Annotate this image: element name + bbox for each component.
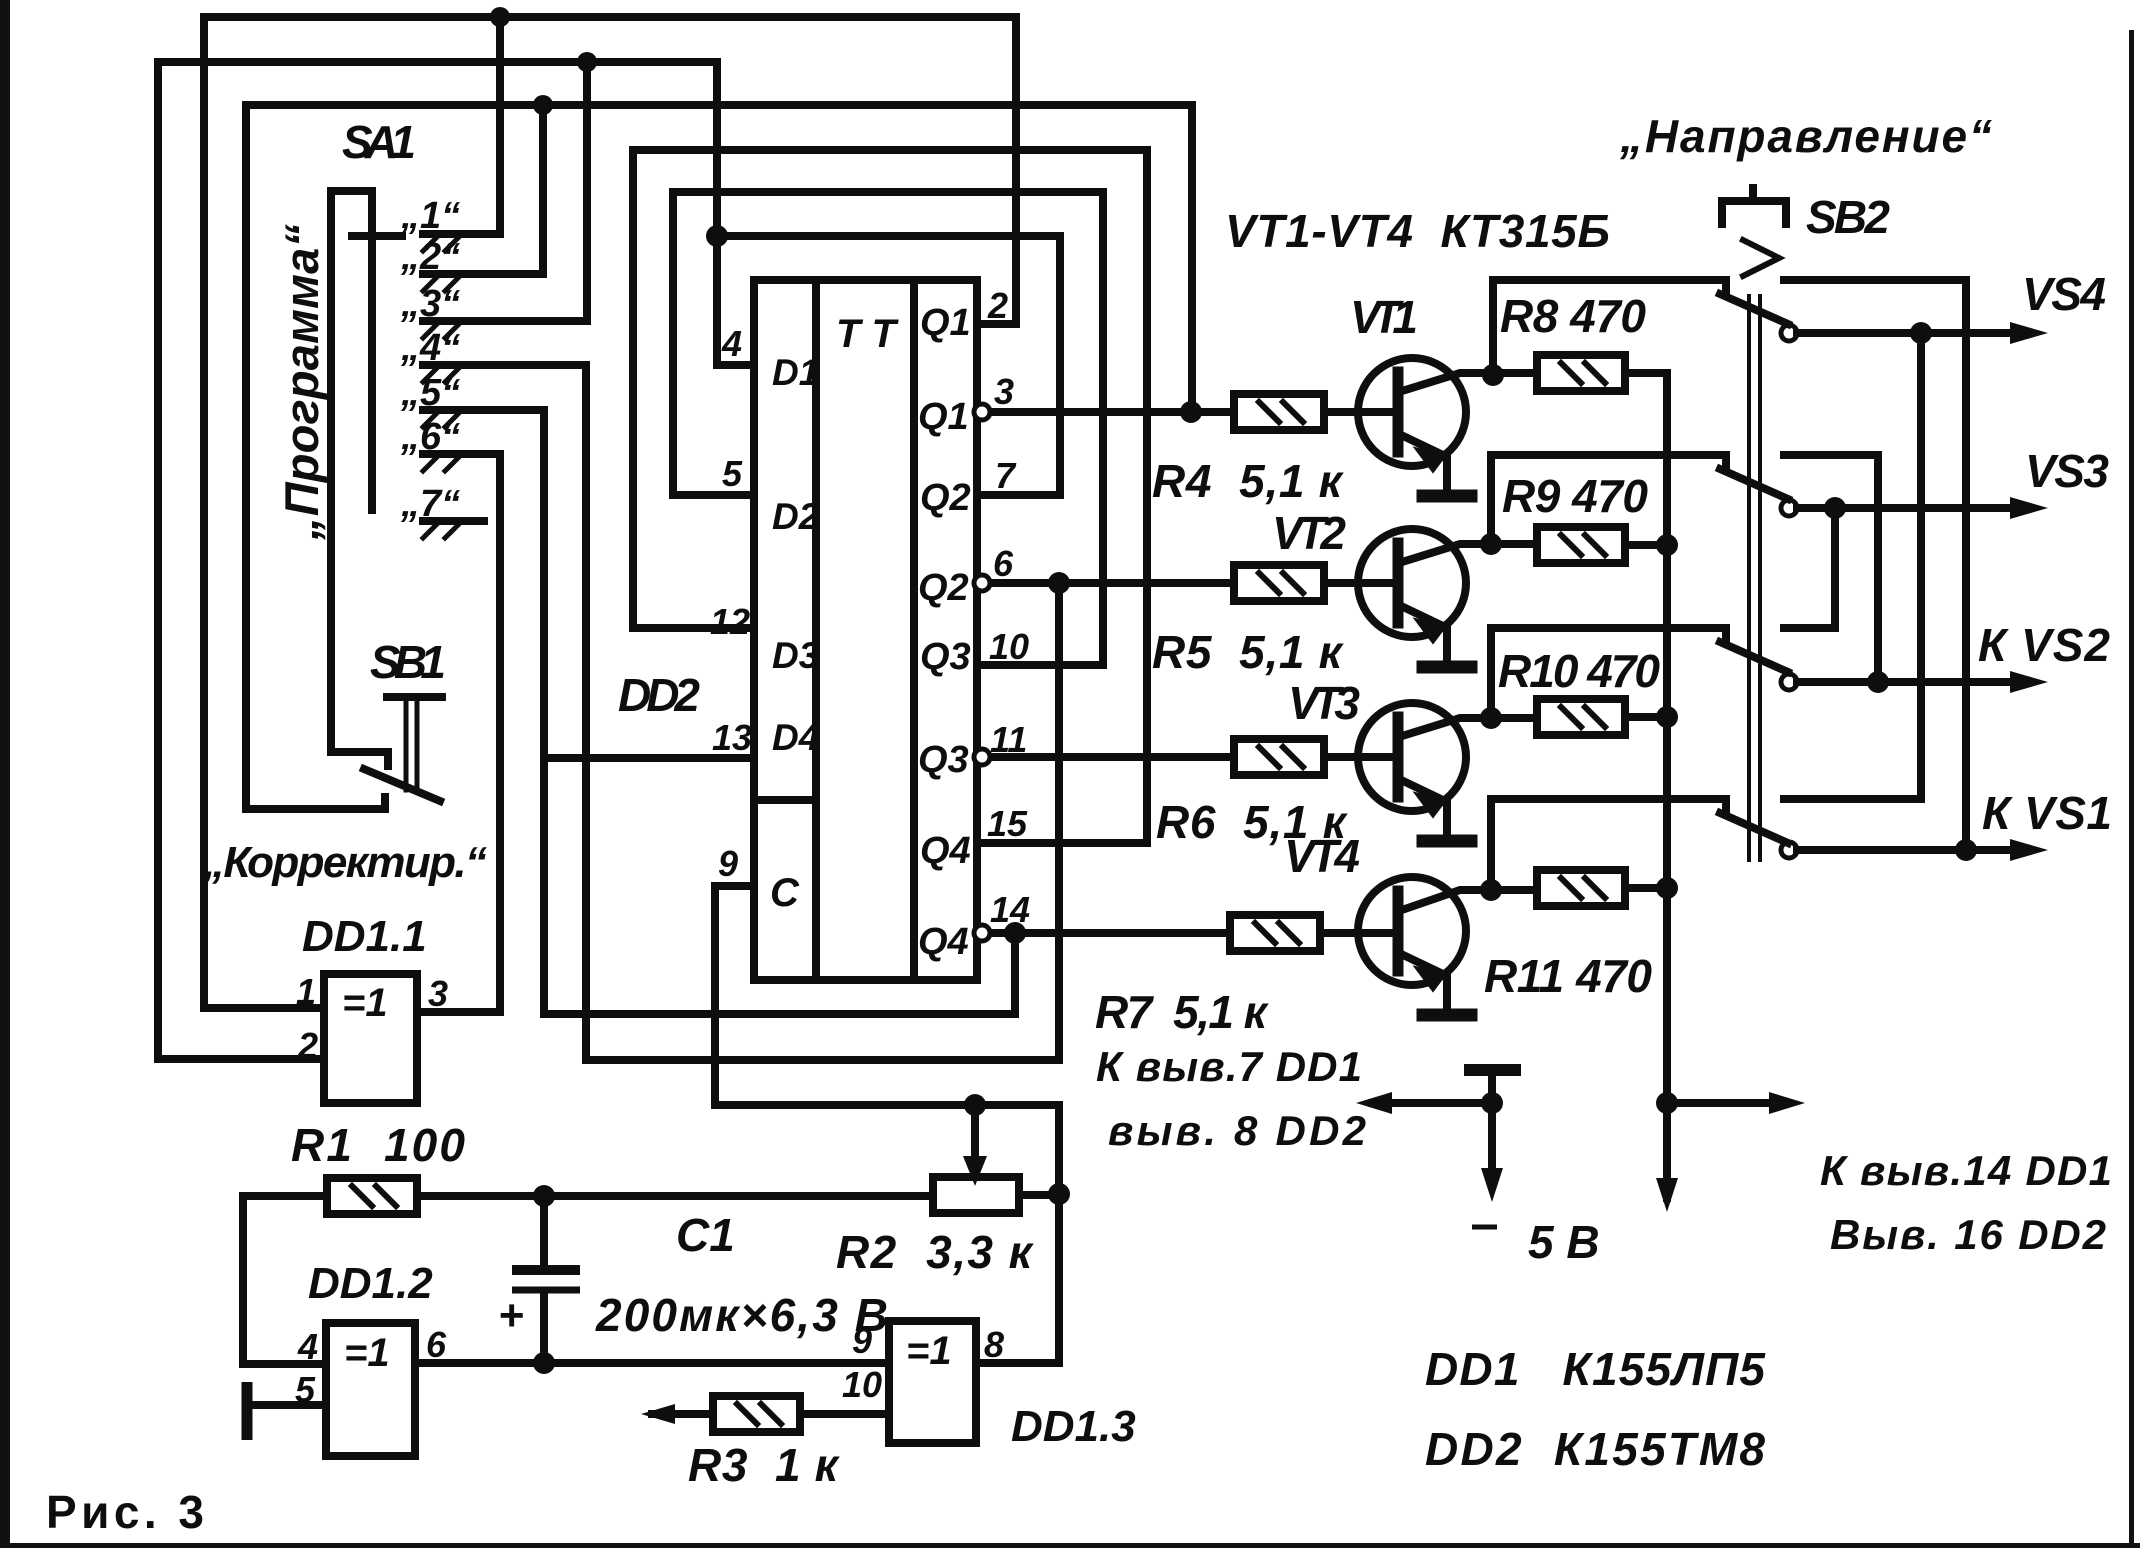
wire VT1 collector to R8	[1399, 373, 1537, 392]
power -5V symbol bar	[1470, 1064, 1515, 1076]
transistor VT1 base bar	[1393, 372, 1404, 452]
DD2 output circle pin11	[974, 749, 990, 765]
wire VT3 feed to SB2 section 3	[1491, 628, 1726, 718]
junction dot D1 node	[706, 225, 728, 247]
svg-text:SB2: SB2	[1806, 191, 1890, 243]
junction dot rail A x500	[490, 7, 510, 27]
switch SB2 blade 3	[1720, 642, 1788, 672]
arrow power down left	[1481, 1168, 1503, 1202]
junction dot R2 right	[1048, 1183, 1070, 1205]
switch SB2 blade 4	[1720, 813, 1788, 843]
svg-text:К выв.14 DD1: К выв.14 DD1	[1820, 1147, 2112, 1194]
wire SA1 pos3 stub	[423, 75, 587, 321]
arrow R3 output left	[641, 1404, 675, 1424]
svg-text:К VS2: К VS2	[1978, 619, 2110, 671]
wire SA1 pos5 to D4 and Q4-inv node	[423, 410, 1015, 1014]
svg-text:„4“: „4“	[400, 327, 460, 369]
arrow R2 wiper head	[963, 1156, 987, 1186]
switch SB1 blade	[364, 769, 440, 801]
wire power to pin7 DD1 note	[1372, 1099, 1492, 1107]
svg-text:DD1 К155ЛП5: DD1 К155ЛП5	[1425, 1343, 1766, 1395]
label minus sign for 5V	[1472, 1225, 1497, 1230]
wire SB2 crossover stub1 to K VS1	[1784, 280, 1966, 850]
svg-text:D2: D2	[772, 496, 820, 537]
svg-text:VT2: VT2	[1272, 507, 1346, 559]
arrow bus right to pin14 note	[1769, 1092, 1805, 1114]
switch SB1 actuator stem	[406, 701, 417, 790]
transistor VT1	[1358, 358, 1466, 466]
wire D3-Q4 link DD2 pin12 to pin15	[633, 150, 1147, 843]
svg-text:6: 6	[426, 1324, 447, 1365]
resistor R11	[1537, 870, 1625, 906]
svg-text:VT3: VT3	[1288, 677, 1360, 729]
wire SA1 pos1 stub	[423, 30, 500, 234]
svg-text:R11 470: R11 470	[1484, 950, 1652, 1002]
junction dot rail C x543	[533, 95, 553, 115]
wire VT4 base from DD2 pin14	[984, 929, 1394, 937]
junction dot bus R11	[1656, 877, 1678, 899]
svg-text:9: 9	[852, 1320, 872, 1361]
junction dot R1 right C1	[533, 1185, 555, 1207]
wire VT1 feed to SB2 section 1	[1493, 280, 1726, 375]
DD2 output circle pin6	[974, 575, 990, 591]
svg-text:R8 470: R8 470	[1500, 290, 1646, 342]
SB2 output line VS3	[1797, 504, 2012, 512]
junction dot VS3 crossover	[1824, 497, 1846, 519]
wire SA1 pos4 to Q2-inv node	[423, 365, 1059, 1060]
wire bus to pin14 DD1 note	[1667, 1099, 1788, 1107]
resistor R3	[713, 1396, 800, 1432]
switch SB2 actuator arrow	[1743, 240, 1779, 276]
svg-text:5: 5	[722, 453, 743, 494]
potentiometer R2 body	[933, 1177, 1019, 1213]
svg-text:10: 10	[842, 1364, 882, 1405]
svg-text:R1 100: R1 100	[291, 1119, 465, 1171]
svg-text:D1: D1	[772, 352, 819, 393]
svg-text:R2 3,3 к: R2 3,3 к	[836, 1226, 1035, 1278]
wire DD2 pin13 D4 branch	[544, 754, 756, 762]
junction dot Q2-inv line	[1048, 572, 1070, 594]
wire rail A net: SA1 pos1 / DD1.1 pin1 / DD2 pin2 Q1	[204, 17, 1016, 1008]
svg-text:R10 470: R10 470	[1498, 645, 1660, 697]
svg-text:„Корректир.“: „Корректир.“	[202, 838, 487, 887]
svg-text:12: 12	[710, 601, 750, 642]
svg-text:9: 9	[718, 843, 738, 884]
svg-text:Q4: Q4	[918, 921, 969, 963]
junction dot VS4 crossover	[1910, 322, 1932, 344]
IC DD2 inner divider left	[812, 280, 820, 980]
wire minus bus R8-R11 to supply	[1625, 373, 1667, 1198]
svg-text:R6 5,1 к: R6 5,1 к	[1156, 796, 1349, 848]
wire DD1.2 pin6 to DD1.3 pin9	[415, 1359, 889, 1367]
SA1 contact ticks row6	[423, 457, 459, 471]
svg-text:R3 1 к: R3 1 к	[688, 1439, 841, 1491]
wire rail C net: SB1 lower contact / SA1 pos2 / R4 line	[246, 105, 1192, 809]
wire VT4 feed to SB2 section 4	[1491, 799, 1726, 890]
svg-text:=1: =1	[906, 1329, 952, 1373]
wire D2-Q3 link DD2 pin5 to pin10	[673, 192, 1103, 665]
wire VT1 emitter	[1399, 434, 1447, 490]
resistor R4	[1234, 394, 1324, 430]
svg-text:„3“: „3“	[400, 283, 460, 325]
wire SA1 pos6 to DD1.1 pin3	[417, 454, 500, 1012]
svg-text:Выв. 16 DD2: Выв. 16 DD2	[1830, 1211, 2106, 1258]
junction dot C1 bottom on pin9 line	[533, 1352, 555, 1374]
svg-text:VS3: VS3	[2025, 445, 2109, 497]
svg-text:7: 7	[995, 455, 1017, 496]
arrow output K VS2	[2010, 671, 2048, 693]
switch SB2 contact circle K VS1	[1781, 842, 1797, 858]
svg-text:5 В: 5 В	[1528, 1216, 1600, 1268]
VT4 emitter arrowhead	[1415, 967, 1445, 991]
gate DD1.2 body	[326, 1323, 415, 1456]
junction dot bus R9	[1656, 534, 1678, 556]
wire R2 wiper tap	[971, 1105, 979, 1168]
svg-text:3: 3	[428, 973, 448, 1014]
IC DD2 inner divider right	[910, 280, 918, 980]
svg-text:14: 14	[990, 889, 1030, 930]
svg-text:VT1: VT1	[1350, 291, 1418, 343]
switch SA1 rotor bar	[368, 194, 376, 510]
svg-text:6: 6	[993, 543, 1014, 584]
svg-text:DD1.2: DD1.2	[308, 1259, 433, 1308]
wire VT2 base from DD2 pin6	[984, 579, 1394, 587]
svg-text:Т Т: Т Т	[836, 312, 900, 356]
wire VT2 emitter	[1399, 605, 1447, 661]
wire VT3 collector to R10	[1399, 718, 1537, 737]
switch SB2 contact circle K VS2	[1781, 674, 1797, 690]
VT2 emitter arrowhead	[1415, 619, 1445, 643]
svg-text:„Программа“: „Программа“	[275, 224, 328, 542]
svg-text:выв. 8 DD2: выв. 8 DD2	[1108, 1107, 1366, 1154]
VT1 emitter arrowhead	[1415, 448, 1445, 472]
resistor R10	[1537, 699, 1625, 735]
junction dot VT4 collector	[1480, 879, 1502, 901]
svg-text:Q1: Q1	[920, 302, 971, 344]
wire SA1 pos7 stub free	[423, 517, 484, 525]
svg-text:R5 5,1 к: R5 5,1 к	[1152, 626, 1345, 678]
resistor R6	[1234, 739, 1324, 775]
svg-text:+: +	[498, 1291, 524, 1340]
junction dot bus power	[1656, 1092, 1678, 1114]
resistor R8	[1537, 355, 1625, 391]
switch SB2 contact circle VS4	[1781, 325, 1797, 341]
junction dot bus R10	[1656, 706, 1678, 728]
SA1 contact ticks row2	[423, 277, 459, 291]
svg-text:200мк×6,3 В: 200мк×6,3 В	[595, 1289, 888, 1341]
svg-text:C1: C1	[676, 1209, 735, 1261]
arrow output VS4	[2010, 322, 2048, 344]
wire C1 upper lead	[540, 1196, 548, 1268]
svg-text:„1“: „1“	[400, 195, 460, 237]
DD2 output circle pin14	[974, 925, 990, 941]
wire VT1 base from DD2 pin3	[984, 408, 1394, 416]
arrow output K VS1	[2010, 839, 2048, 861]
svg-text:Q3: Q3	[920, 636, 971, 678]
svg-text:DD1.3: DD1.3	[1011, 1402, 1136, 1451]
wire DD1.2 pin5 to chassis	[248, 1401, 326, 1409]
wire R9 right lead	[1625, 541, 1667, 549]
svg-text:DD2 К155ТМ8: DD2 К155ТМ8	[1425, 1423, 1765, 1475]
junction dot VT2 collector	[1480, 533, 1502, 555]
SA1 contact ticks row4	[423, 368, 459, 382]
svg-text:4: 4	[297, 1326, 318, 1367]
junction dot rail B x587	[577, 52, 597, 72]
wire SB2 crossover stub2 to K VS2	[1784, 455, 1878, 682]
resistor R7	[1230, 915, 1320, 951]
resistor R4 hatches	[1259, 402, 1303, 422]
svg-text:VT1-VT4 КТ315Б: VT1-VT4 КТ315Б	[1225, 205, 1610, 257]
svg-text:Q2: Q2	[918, 567, 969, 609]
DD2 output circle pin3	[974, 404, 990, 420]
transistor VT3 base bar	[1393, 717, 1404, 797]
gate DD1.1 body	[324, 974, 417, 1103]
resistor R9 hatches	[1561, 535, 1605, 555]
svg-text:„7“: „7“	[400, 483, 460, 525]
wire rail B net: SA1 pos3 / DD1.1 pin2 / DD2 pin4 D1	[158, 62, 756, 1059]
svg-text:R7 5,1 к: R7 5,1 к	[1095, 986, 1270, 1038]
transistor VT2	[1358, 529, 1466, 637]
svg-text:SA1: SA1	[342, 116, 416, 168]
transistor VT3	[1358, 703, 1466, 811]
resistor R5 hatches	[1259, 573, 1303, 593]
svg-text:„6“: „6“	[400, 416, 460, 458]
svg-text:3: 3	[994, 371, 1014, 412]
resistor R3 hatches	[737, 1404, 781, 1424]
wire R2 right lead	[1019, 1191, 1059, 1199]
svg-text:15: 15	[987, 803, 1028, 844]
wire R11 right lead	[1625, 884, 1667, 892]
svg-text:10: 10	[989, 626, 1029, 667]
switch SB2 blade 1	[1720, 294, 1788, 324]
svg-text:2: 2	[297, 1025, 318, 1066]
resistor R8 hatches	[1561, 363, 1605, 383]
resistor R10 hatches	[1561, 707, 1605, 727]
ground VT2	[1423, 661, 1471, 674]
IC DD2 counter block body	[754, 280, 977, 980]
SA1 contact ticks row7	[423, 524, 459, 538]
wire power down arrow	[1488, 1103, 1496, 1186]
SA1 contact ticks row3	[423, 324, 459, 338]
svg-text:4: 4	[721, 323, 742, 364]
junction dot Q4-inv line	[1004, 922, 1026, 944]
svg-text:DD2: DD2	[618, 669, 700, 721]
svg-text:=1: =1	[342, 981, 388, 1025]
wire C clock net: DD2 pin9 to R2 node	[715, 886, 1059, 1363]
switch SA1 wiper crossbar	[352, 232, 402, 240]
wire oscillator top rail R1-R2	[243, 1196, 933, 1364]
junction dot VT3 collector	[1480, 707, 1502, 729]
wire SB2 crossover stub4 to VS4	[1784, 333, 1921, 799]
junction dot K VS1 crossover	[1955, 839, 1977, 861]
gate DD1.3 body	[889, 1321, 976, 1443]
svg-text:5: 5	[295, 1369, 316, 1410]
svg-text:R4 5,1 к: R4 5,1 к	[1152, 455, 1345, 507]
svg-text:„2“: „2“	[400, 236, 460, 278]
transistor VT2 base bar	[1393, 543, 1404, 623]
svg-text:Q2: Q2	[920, 477, 971, 519]
svg-text:DD1.1: DD1.1	[302, 912, 427, 961]
svg-text:SB1: SB1	[370, 636, 446, 688]
junction dot K VS2 crossover	[1867, 671, 1889, 693]
resistor R7 hatches	[1255, 923, 1299, 943]
svg-text:1: 1	[296, 971, 316, 1012]
svg-text:2: 2	[987, 285, 1008, 326]
wire VT4 emitter	[1399, 953, 1447, 1009]
resistor R1	[327, 1178, 417, 1214]
svg-text:К VS1: К VS1	[1982, 787, 2112, 839]
svg-text:VS4: VS4	[2022, 268, 2106, 320]
resistor R6 hatches	[1259, 747, 1303, 767]
switch SB2 actuator icon	[1722, 188, 1786, 224]
wire VT3 emitter	[1399, 779, 1447, 835]
ground VT3	[1423, 835, 1471, 848]
resistor R11 hatches	[1561, 878, 1605, 898]
svg-text:Рис. 3: Рис. 3	[46, 1486, 204, 1538]
wire C1 lower lead	[540, 1291, 548, 1361]
resistor R9	[1537, 527, 1625, 563]
resistor R5	[1234, 565, 1324, 601]
svg-text:D4: D4	[772, 717, 819, 758]
VT3 emitter arrowhead	[1415, 793, 1445, 817]
wire VT2 feed to SB2 section 2	[1491, 455, 1726, 544]
arrow bus down	[1656, 1178, 1678, 1212]
junction dot R4 line	[1180, 401, 1202, 423]
svg-text:C: C	[770, 871, 800, 915]
svg-text:Q3: Q3	[918, 739, 969, 781]
svg-text:8: 8	[984, 1324, 1004, 1365]
svg-text:Q4: Q4	[920, 830, 971, 872]
ground VT1	[1423, 490, 1471, 503]
switch SA1 wiper bracket	[331, 191, 388, 766]
wire VT2 collector to R9	[1399, 544, 1537, 563]
power -5V stem	[1488, 1074, 1496, 1103]
chassis terminal at DD1.2 pin5	[242, 1382, 253, 1440]
svg-text:Q1: Q1	[918, 396, 969, 438]
switch SB2 contact circle VS3	[1781, 500, 1797, 516]
wire SA1 pos2 stub	[423, 118, 543, 274]
arrow output VS3	[2010, 497, 2048, 519]
arrow power left to DD pins	[1356, 1092, 1392, 1114]
resistor R1 hatches	[352, 1186, 396, 1206]
wire D1-Q2 link from node 717,236 to DD2 pin7	[717, 236, 1060, 495]
switch SB2 slider double bar	[1749, 296, 1760, 860]
IC DD2 C-section divider	[754, 796, 816, 804]
svg-text:R9 470: R9 470	[1502, 470, 1648, 522]
svg-text:„Направление“: „Направление“	[1619, 110, 1992, 162]
junction dot clock net at R2 wiper	[964, 1094, 986, 1116]
svg-text:„5“: „5“	[400, 372, 460, 414]
wire VT4 collector to R11	[1399, 890, 1537, 911]
switch SB1 actuator bar	[387, 693, 442, 701]
SB2 output line K VS2	[1797, 678, 2012, 686]
capacitor C1 bottom plate	[512, 1287, 580, 1294]
SA1 contact ticks row1	[423, 237, 459, 251]
SB2 output line K VS1	[1797, 846, 2012, 854]
junction dot power left	[1481, 1092, 1503, 1114]
ground VT4	[1423, 1009, 1471, 1022]
junction dot VT1 collector	[1482, 364, 1504, 386]
wire R3 line to DD1.3 pin10	[652, 1410, 889, 1418]
svg-text:13: 13	[712, 717, 752, 758]
svg-text:К выв.7 DD1: К выв.7 DD1	[1096, 1043, 1362, 1090]
svg-text:11: 11	[990, 719, 1027, 760]
SB2 output line VS4	[1797, 329, 2012, 337]
transistor VT4	[1358, 877, 1466, 985]
SA1 contact ticks row5	[423, 413, 459, 427]
wire VT3 base from DD2 pin11	[984, 753, 1394, 761]
switch SB2 blade 2	[1720, 469, 1788, 499]
wire R10 right lead	[1625, 713, 1667, 721]
wire SB2 crossover stub3 to VS3	[1784, 508, 1835, 628]
svg-text:D3: D3	[772, 635, 820, 676]
transistor VT4 base bar	[1393, 891, 1404, 971]
switch SB1 lower contact nub	[381, 797, 389, 809]
capacitor C1 top plate	[512, 1265, 580, 1275]
svg-text:=1: =1	[344, 1331, 390, 1375]
